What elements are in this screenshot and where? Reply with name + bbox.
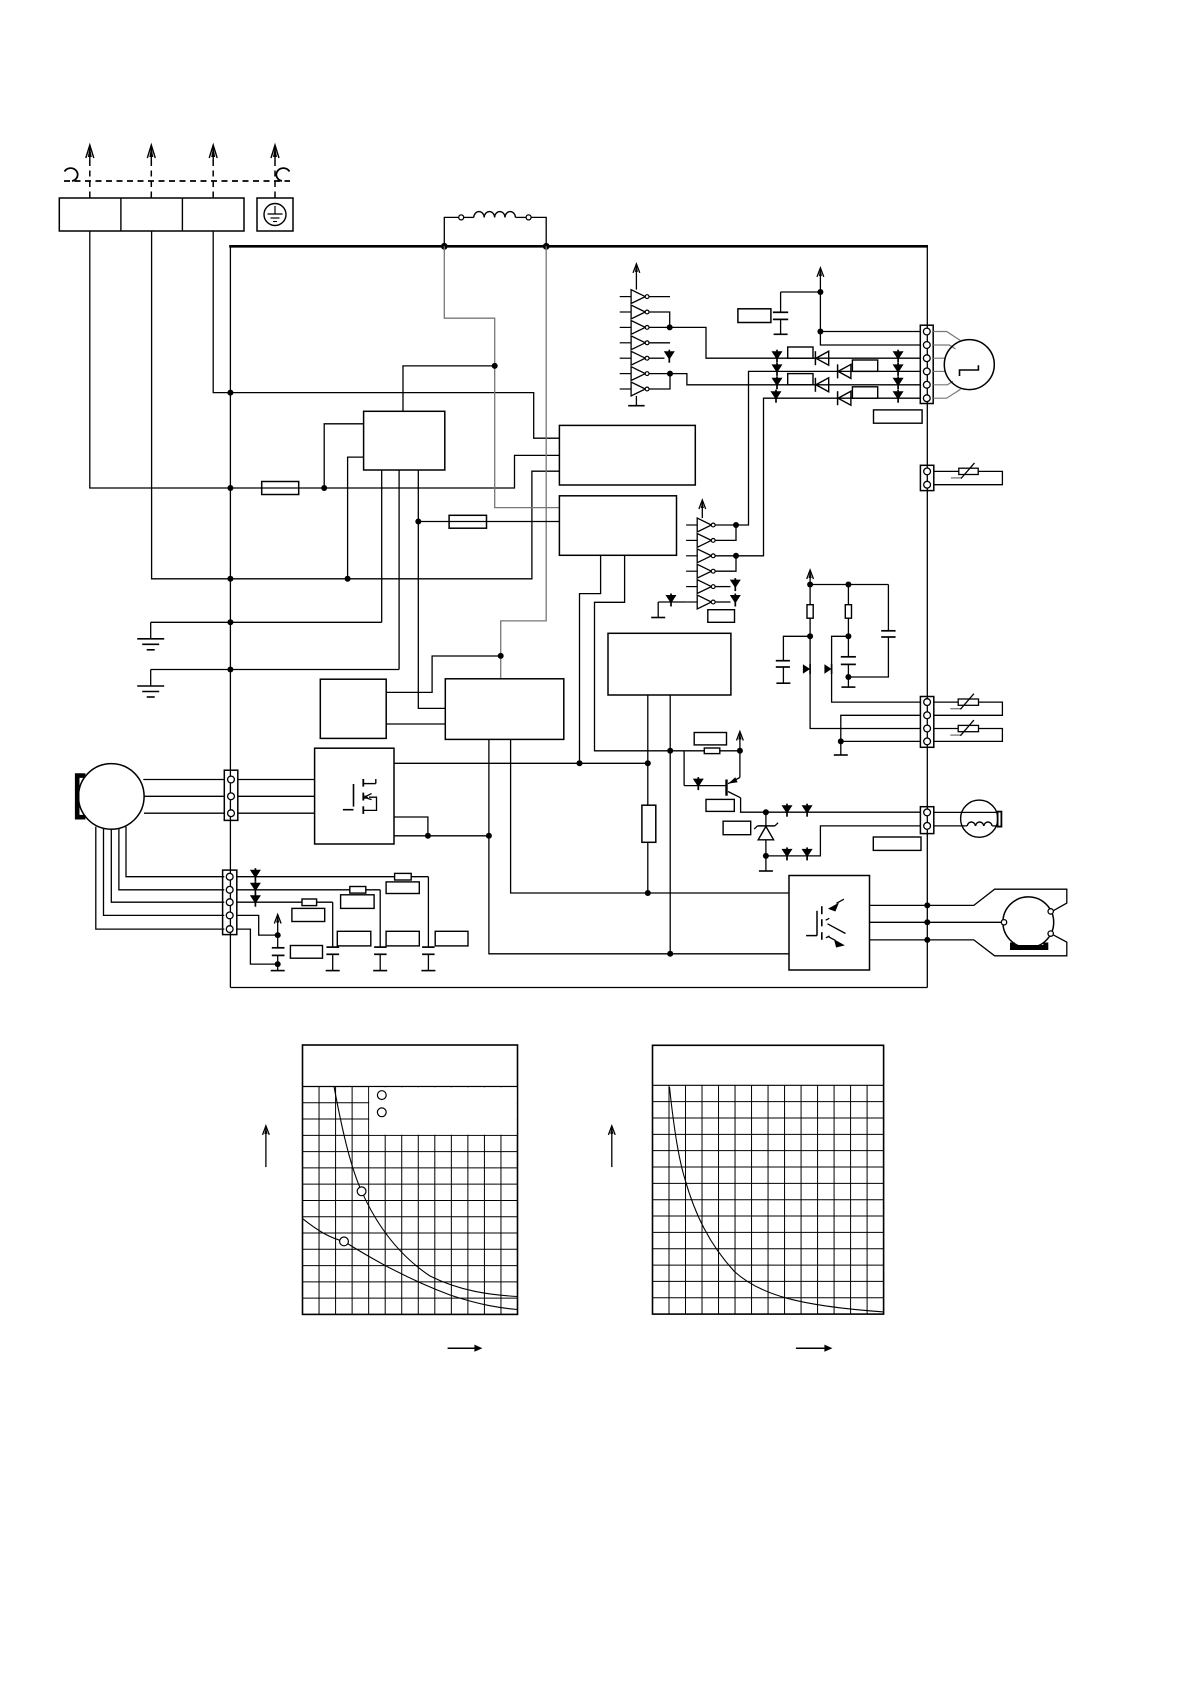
chart 2 frame and grid (pipe thermistor curve)	[653, 1045, 884, 1314]
fan motor M2 symbol	[960, 365, 979, 376]
resistor R10 (vertical)	[642, 805, 656, 842]
wire IC2 out4	[715, 556, 736, 571]
wire CN5 pin1 to valve	[934, 811, 998, 813]
wire IC2 out3 to diode row4	[715, 398, 776, 556]
wire base loop top	[670, 750, 740, 752]
diode D2	[838, 364, 851, 378]
junction	[345, 576, 351, 582]
wire CN2 pin4 to Vcc node	[237, 915, 278, 935]
junction	[924, 919, 930, 925]
label box	[874, 410, 923, 423]
label box	[706, 799, 734, 811]
wire IC1 out4 stub	[649, 342, 670, 344]
node marker	[893, 363, 904, 376]
wire U7 right pin3	[394, 835, 489, 837]
valve coil RV1	[961, 800, 998, 837]
wire U1 pin2 to PCB ground line 2	[398, 470, 400, 670]
power arrow IC1 Vcc	[633, 264, 640, 290]
valve coil winding	[967, 822, 992, 826]
ground	[271, 964, 285, 971]
fuse F2	[449, 515, 486, 528]
junction	[733, 522, 739, 528]
wire U1 left pin2 to N line	[348, 457, 364, 579]
label box	[708, 610, 735, 623]
wire to CN4 pin3	[810, 636, 920, 728]
compressor motor M3	[1003, 897, 1054, 948]
resistor R23	[302, 899, 317, 906]
wire L phase from TB1 cell1 to fuse line	[90, 231, 560, 488]
terminal block TB1	[59, 198, 244, 231]
diode D1	[815, 351, 828, 365]
wire main board outline bottom edge	[230, 987, 927, 989]
wire main board outline right edge / DC bus	[926, 246, 928, 987]
node marker	[771, 390, 782, 403]
ground	[834, 741, 848, 755]
chart 2 x axis arrow	[796, 1345, 833, 1352]
reactor L1 left terminal	[459, 215, 464, 220]
chart 1 legend marker	[377, 1108, 386, 1117]
diode D6	[803, 664, 810, 674]
power arrow Vcc	[274, 915, 281, 936]
wire CN1 pin3 to U7	[238, 812, 315, 814]
junction	[543, 243, 550, 250]
block U4	[320, 679, 386, 738]
wire Vcc to CN3 pin1	[820, 292, 920, 332]
reactor L1 right terminal	[526, 215, 531, 220]
junction	[737, 748, 743, 754]
wire to CN3 pin2	[820, 332, 920, 346]
wire U8 out2	[870, 921, 928, 923]
wire zener node to CN5 pin2	[766, 826, 921, 856]
ground	[421, 954, 435, 970]
wire CN1 pin2 to U7	[238, 795, 315, 797]
capacitor C24	[272, 935, 285, 964]
junction	[817, 329, 823, 335]
junction	[227, 667, 233, 673]
wire CN3 to fan motor leads (gray)	[933, 332, 960, 399]
node marker	[893, 350, 904, 363]
transistor Q2 (PNP)	[727, 777, 741, 798]
chart 2 curve	[670, 1087, 884, 1312]
wire IC2 in6 to ground	[658, 601, 686, 603]
wire base left	[684, 785, 726, 787]
fan motor M1 mount bracket	[77, 776, 85, 818]
transistor Q1 symbol inside U7	[343, 779, 377, 814]
node marker	[782, 847, 793, 860]
wire U8 out1	[870, 904, 928, 906]
wire U4 right pin2 to U5	[386, 723, 445, 725]
wire compressor lead V	[927, 921, 1001, 923]
junction	[577, 760, 583, 766]
label box	[292, 908, 325, 921]
wire CN6 loop	[934, 471, 1003, 484]
wire CN4 pin4 to ground	[841, 740, 921, 742]
diode D7	[824, 664, 831, 674]
node marker	[802, 804, 813, 817]
wire R10 to opto input node	[647, 842, 649, 893]
wire Vcc rail	[810, 584, 888, 586]
capacitor C12	[841, 636, 856, 677]
node marker	[893, 390, 904, 403]
chart 1 curve A	[334, 1087, 518, 1297]
junction	[817, 289, 823, 295]
ground	[373, 954, 387, 970]
ground	[651, 602, 665, 618]
wire M1 hall lead 5	[96, 827, 225, 930]
junction	[486, 833, 492, 839]
compressor terminal	[1048, 909, 1053, 914]
label box	[341, 895, 375, 909]
ground	[776, 667, 790, 683]
connector CN6 (2-pin)	[920, 465, 933, 490]
power arrow Vcc	[817, 268, 824, 292]
wire U6 pin1 down	[647, 695, 649, 805]
wire U6 pin2 down	[669, 695, 671, 954]
wire U3 pinA to IGBT output line	[580, 555, 601, 763]
node marker	[730, 578, 741, 591]
block U7 (IGBT)	[315, 748, 394, 844]
block U2 (control circuit)	[559, 425, 695, 485]
wire IC2 out1 to diode row2	[715, 371, 777, 525]
power arrow Vcc	[807, 570, 814, 585]
diode D4	[838, 391, 851, 405]
ground	[326, 954, 340, 970]
label box	[788, 347, 813, 358]
wire IC1 out6 to diode row3	[649, 374, 777, 385]
resistor R11	[704, 748, 720, 754]
junction	[275, 961, 281, 967]
wire U5 pin1 to optocoupler lower input	[489, 739, 789, 953]
optocoupler U8	[789, 876, 870, 971]
wire CN4 loop1	[934, 702, 1003, 715]
ground chassis earth 1	[137, 622, 164, 650]
wire field wiring dashed run with hooks	[64, 168, 290, 181]
ground IC1	[628, 396, 644, 406]
wire U3 pinB to transistor node	[595, 555, 671, 751]
block U6	[608, 633, 731, 695]
label box	[852, 387, 877, 398]
wire U8 out3	[870, 939, 928, 941]
wire M1 hall lead 3	[111, 829, 224, 902]
wire diode row1	[777, 357, 920, 359]
capacitor C11	[776, 636, 810, 667]
resistor R1	[738, 309, 771, 323]
wire CN2 pin1 line	[237, 876, 429, 878]
wire CN4 pin2 to ground	[841, 715, 921, 741]
connector CN1 (3-pin)	[224, 770, 238, 820]
node marker	[782, 804, 793, 817]
wire IC1 out3 to diode row1	[649, 327, 777, 358]
node marker	[772, 376, 783, 389]
capacitor C22	[374, 890, 387, 955]
block U1 (power module)	[364, 411, 445, 470]
junction	[667, 748, 673, 754]
junction	[227, 485, 233, 491]
junction	[275, 932, 281, 938]
wire chassis ground line 2	[151, 669, 399, 671]
wire rectified bus A (gray)	[444, 246, 559, 507]
junction	[667, 951, 673, 957]
wire emitter to CN5 pin1	[741, 798, 921, 812]
chart 1 x axis arrow	[448, 1345, 483, 1352]
wire U7 right pin1 to U3 line	[394, 762, 648, 764]
label box	[435, 931, 468, 946]
wire IC2 out2	[715, 525, 736, 540]
resistor R22	[350, 887, 366, 894]
ground (protective earth symbol)	[264, 204, 286, 226]
chart 2 y axis arrow	[608, 1126, 615, 1167]
node marker	[664, 350, 675, 363]
junction	[924, 902, 930, 908]
power arrow IC2 Vcc	[699, 500, 706, 518]
node marker	[730, 594, 741, 607]
wire N phase from TB1 cell2	[152, 231, 560, 579]
node marker	[250, 881, 261, 894]
junction	[227, 390, 233, 396]
wire U4 right pin to node above U5	[386, 656, 501, 692]
label box	[723, 821, 751, 835]
chart 1 legend marker	[377, 1091, 386, 1100]
buffer array IC2 (6x inverter)	[686, 518, 715, 609]
wire IC1 out5 stub	[649, 357, 665, 359]
optocoupler U8 internal symbol	[806, 899, 845, 947]
label box	[873, 837, 921, 850]
wire chassis ground line 1	[151, 621, 382, 623]
resistor R12	[807, 585, 813, 637]
diode D5 (zener)	[754, 812, 778, 856]
reactor L1 winding	[464, 212, 526, 218]
thermistor TH3	[950, 720, 978, 736]
wire U1 left pin to fuse node	[324, 424, 363, 488]
label box	[290, 946, 322, 959]
block U3 (power supply circuit)	[559, 496, 676, 556]
wire CN1 pin1 to U7	[238, 779, 315, 781]
wire IC1 out2	[649, 312, 670, 327]
fuse F1	[262, 482, 299, 495]
junction	[924, 937, 930, 943]
wire compressor lead U	[927, 889, 1067, 911]
thermistor TH1	[951, 463, 978, 479]
node marker	[693, 777, 704, 790]
capacitor C13	[848, 585, 895, 678]
connector CN4 (4-pin)	[920, 697, 933, 748]
junction	[227, 576, 233, 582]
diode D3	[815, 378, 828, 392]
wire M1 hall lead 4	[104, 828, 225, 915]
junction	[415, 519, 421, 525]
node marker	[772, 350, 783, 363]
junction	[667, 371, 673, 377]
node marker	[802, 847, 813, 860]
wire diode row4	[776, 397, 920, 399]
compressor mount bracket	[1013, 943, 1046, 948]
valve terminal bracket	[998, 812, 1002, 827]
ground	[774, 319, 788, 334]
wire M1 hall lead 1	[126, 827, 224, 877]
node marker	[893, 376, 904, 389]
compressor terminal	[1001, 920, 1006, 925]
ground chassis earth 2	[137, 670, 164, 698]
node marker	[250, 868, 261, 881]
wire M1 hall lead 2	[119, 828, 224, 890]
chart 1 y axis arrow	[263, 1126, 270, 1167]
block U5	[445, 679, 564, 740]
wire IC2 out5 stub	[715, 586, 730, 588]
wire U7 right hook	[394, 817, 428, 836]
connector CN5 (2-pin)	[920, 807, 933, 834]
label box	[852, 360, 877, 371]
wire CN4 loop2	[934, 729, 1003, 742]
junction	[645, 890, 651, 896]
wire IC1 out7	[649, 374, 670, 389]
wire CN2 pin3 line	[237, 901, 333, 903]
ground	[841, 677, 855, 687]
wire compressor lead W	[927, 935, 1067, 956]
label box	[337, 931, 371, 946]
node marker	[250, 894, 261, 907]
junction	[838, 738, 844, 744]
capacitor C23	[326, 902, 339, 954]
wire from TB1 cell3 to control block	[213, 231, 559, 438]
buffer array IC1 (7x inverter)	[620, 290, 649, 396]
protective earth terminal box	[257, 198, 293, 231]
junction	[321, 485, 327, 491]
capacitor C21	[422, 877, 435, 955]
junction	[667, 324, 673, 330]
junction	[845, 582, 851, 588]
wire U1 pin1 to PCB ground line	[381, 470, 383, 622]
wire diode row2	[777, 370, 920, 372]
reactor L1 left lead	[444, 217, 459, 246]
compressor terminal	[1048, 931, 1053, 936]
junction	[845, 633, 851, 639]
label box	[386, 882, 419, 894]
junction	[733, 553, 739, 559]
connector CN3 (6-pin)	[920, 325, 933, 403]
wire IC1 out1 stub	[649, 296, 670, 298]
wire M1 to CN1 pin1	[143, 779, 224, 781]
junction	[492, 363, 498, 369]
junction	[645, 760, 651, 766]
wire base loop left	[683, 751, 685, 786]
wire C1 to Vcc node	[781, 291, 821, 293]
resistor R21	[395, 873, 412, 880]
junction	[807, 582, 813, 588]
node marker	[772, 363, 783, 376]
reactor L1 right lead	[531, 217, 546, 246]
fan motor M2 (outdoor fan)	[944, 340, 994, 390]
wire main board outline left edge	[229, 246, 231, 987]
wire to CN4 pin1	[832, 636, 921, 702]
junction	[441, 243, 448, 250]
chart 1 curve marker	[357, 1187, 366, 1196]
junction	[845, 674, 851, 680]
wire field wiring arrows (dashed)	[86, 145, 279, 198]
wire CN5 pin2 to valve	[934, 825, 998, 827]
wire collector	[739, 751, 741, 778]
label box	[386, 931, 419, 946]
wire U1 top pin to bus A	[403, 366, 495, 411]
wire M1 to CN1 pin2	[144, 795, 224, 797]
label box	[694, 733, 726, 745]
wire U5 pin2 to optocoupler upper input	[511, 739, 789, 893]
wire diode row3	[777, 384, 920, 386]
chart 1 curve marker	[340, 1237, 349, 1246]
chart 1 curve B	[303, 1219, 518, 1310]
junction	[227, 619, 233, 625]
junction	[763, 809, 769, 815]
ground	[759, 856, 773, 871]
wire M1 to CN1 pin3	[144, 812, 224, 814]
junction	[425, 833, 431, 839]
node marker	[666, 594, 677, 607]
label box	[788, 374, 813, 385]
thermistor TH2	[950, 694, 978, 710]
chart 1 frame and grid (fan thermistor curve)	[303, 1045, 518, 1314]
wire CN2 pin5 to ground node	[237, 929, 278, 964]
junction	[763, 853, 769, 859]
wire main AC bus (top edge, thick)	[229, 245, 928, 248]
junction	[498, 653, 504, 659]
wire U1 pin3 down to block E	[418, 470, 445, 708]
connector CN2 (5-pin)	[223, 870, 237, 935]
wire IC2 out6 stub	[715, 601, 730, 603]
wire CN2 pin2 line	[237, 889, 380, 891]
wire rectified bus B (gray)	[501, 246, 547, 679]
wire fuse F2 line to block C	[418, 521, 559, 523]
resistor R13	[845, 585, 851, 637]
fan motor M1 (indoor fan)	[79, 764, 145, 830]
power arrow Vcc	[737, 732, 744, 751]
junction	[807, 633, 813, 639]
capacitor C1	[773, 292, 788, 319]
